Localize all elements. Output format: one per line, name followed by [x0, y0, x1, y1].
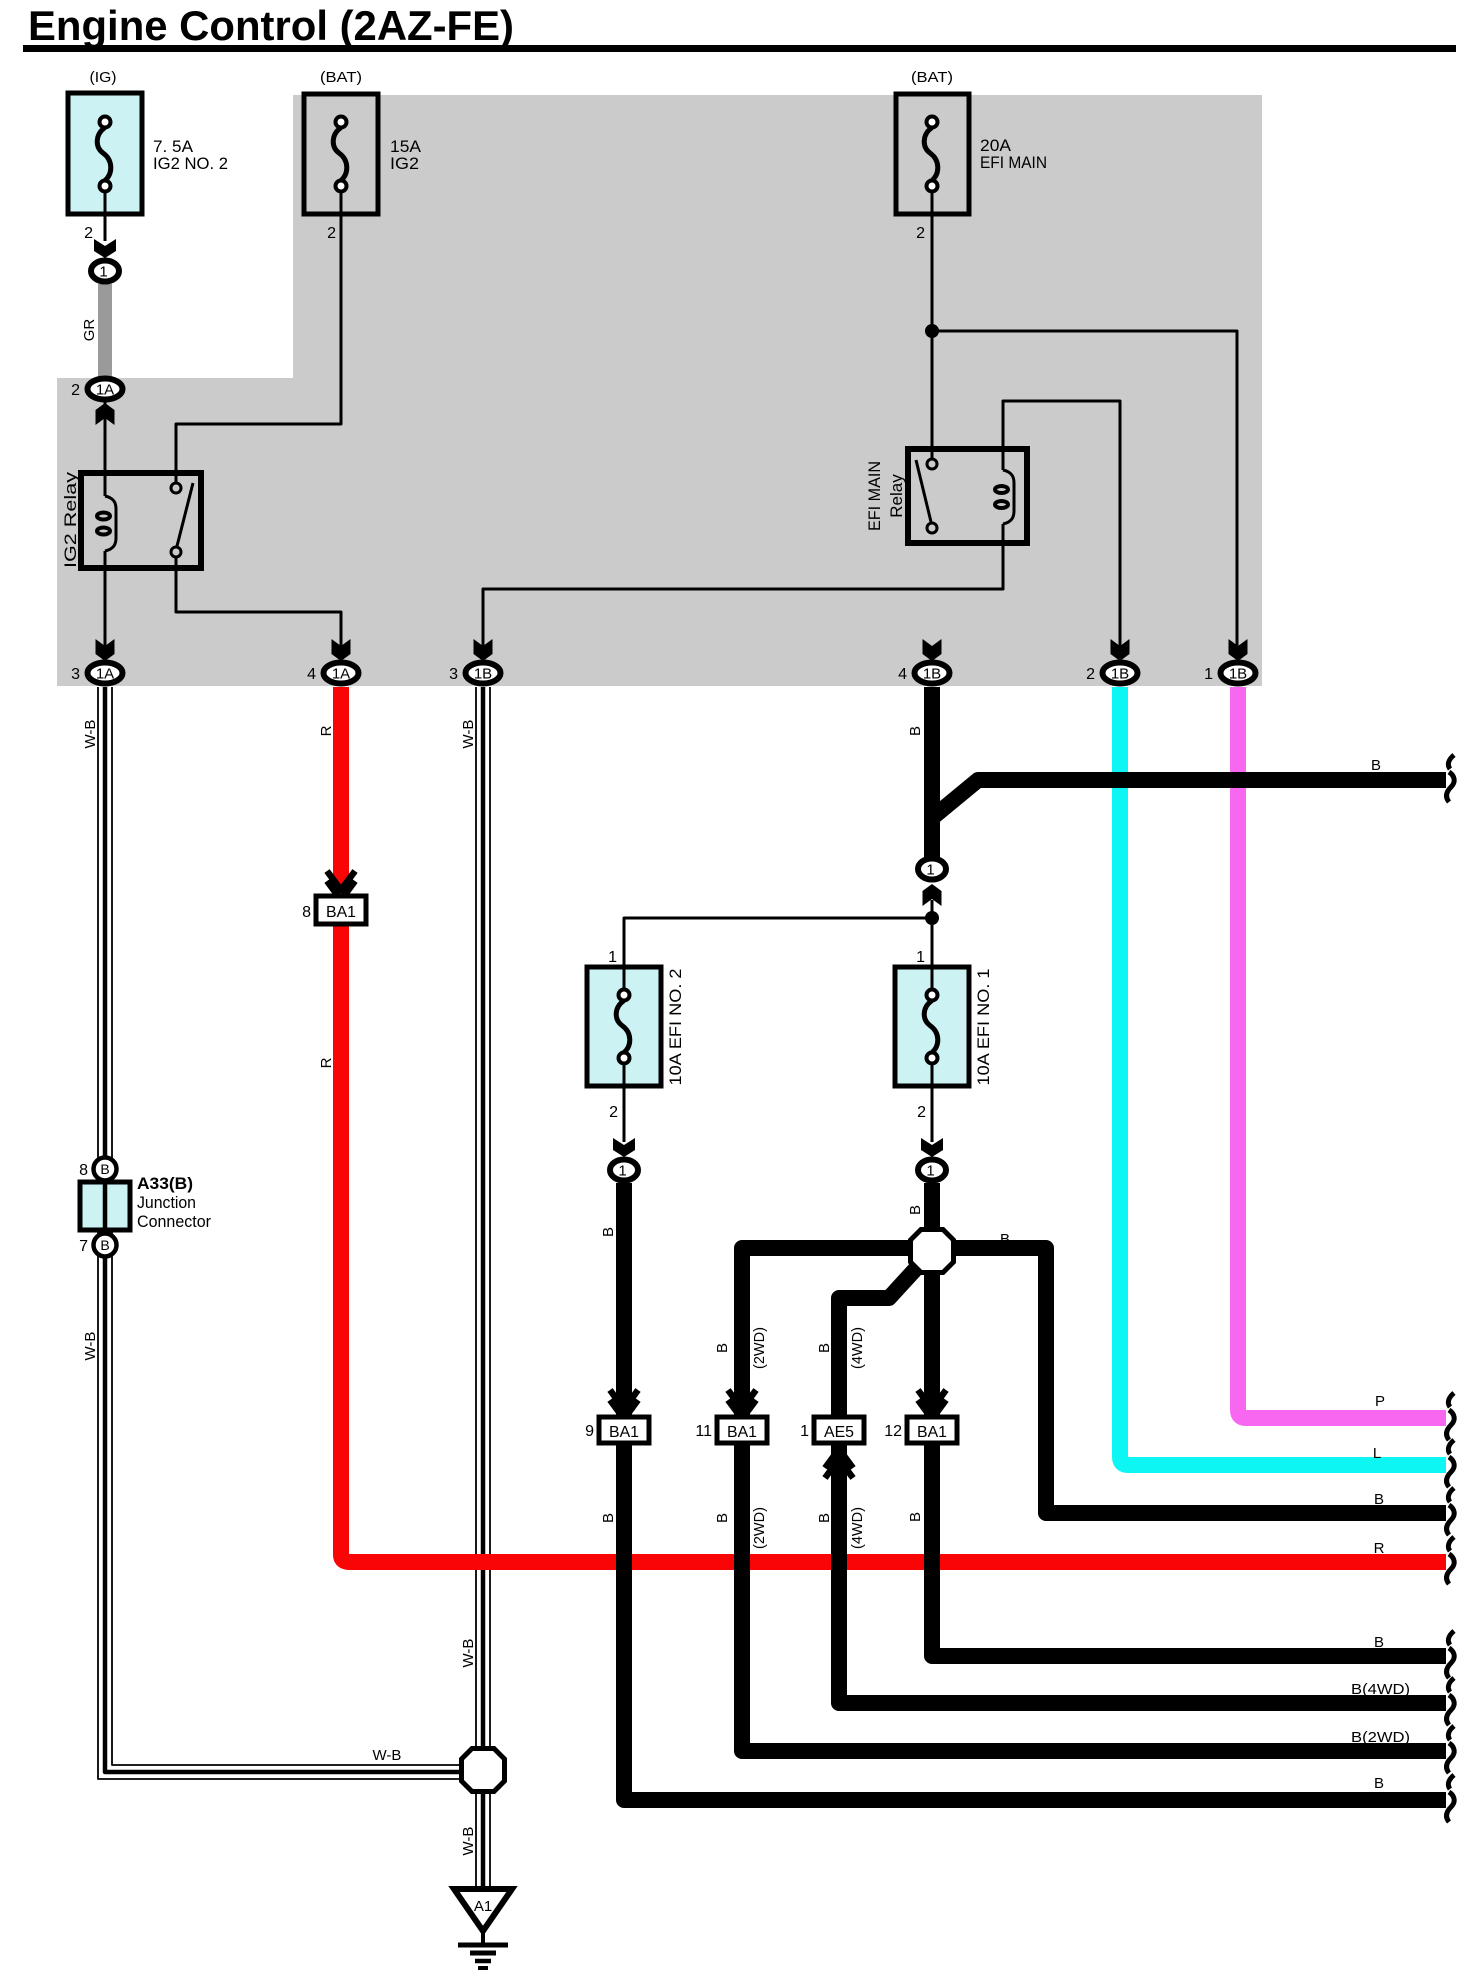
connector 11 BA1 — [695, 1417, 767, 1443]
svg-text:B: B — [1000, 1231, 1010, 1248]
label GR — [81, 319, 98, 342]
label B wire9 above — [600, 1227, 617, 1237]
wire B wire9 from oval to bottom right — [624, 1183, 1446, 1800]
svg-text:(2WD): (2WD) — [751, 1327, 768, 1369]
wire below EFI NO.1 fuse — [931, 1062, 934, 1142]
label B(2WD) right — [1351, 1729, 1410, 1746]
svg-text:L: L — [1373, 1445, 1381, 1462]
arrow into connector 2 1B — [1111, 639, 1130, 661]
connector oval 1 below EFI NO.1 — [918, 1160, 946, 1181]
fuse 20A labels — [911, 69, 1047, 242]
relay EFI MAIN box — [908, 449, 1027, 543]
arrow up into connector 1A — [96, 403, 115, 425]
label B wire12 above — [907, 1205, 924, 1215]
ground A1 — [454, 1889, 512, 1968]
wire B octagon left to wire11 — [742, 1248, 932, 1417]
svg-text:10A EFI NO. 1: 10A EFI NO. 1 — [974, 969, 993, 1086]
svg-text:P: P — [1375, 1393, 1385, 1410]
fuse 10A EFI NO.1 — [895, 965, 969, 1088]
wire B from 4 1B down with branch to right edge — [932, 687, 1446, 858]
svg-text:B: B — [714, 1513, 731, 1523]
svg-text:BA1: BA1 — [727, 1424, 757, 1441]
label R upper — [318, 725, 335, 736]
svg-text:BA1: BA1 — [917, 1424, 947, 1441]
junction block shaded region — [57, 95, 1262, 686]
label W-B below octagon — [460, 1827, 477, 1856]
label B right3 — [1374, 1775, 1384, 1792]
svg-text:R: R — [318, 1057, 335, 1068]
label W-B left lower — [82, 1332, 99, 1361]
svg-text:1: 1 — [618, 1163, 626, 1180]
break symbol B top — [1447, 755, 1455, 802]
connector A33(B) pin 7 circle — [79, 1234, 116, 1257]
arrow into oval below EFI NO.1 — [921, 1138, 943, 1157]
fuse 20A EFI MAIN — [896, 94, 969, 216]
label W-B center top — [460, 720, 477, 749]
wire fuse 7.5A pin2 down — [104, 191, 107, 241]
title underline — [23, 45, 1456, 52]
svg-text:B(2WD): B(2WD) — [1351, 1729, 1410, 1746]
wire B AE5 lower — [839, 1443, 1446, 1703]
connector 1A oval — [71, 379, 122, 400]
svg-text:Engine Control (2AZ-FE): Engine Control (2AZ-FE) — [28, 2, 514, 49]
svg-text:1: 1 — [1204, 666, 1213, 683]
connector 4 1B — [898, 663, 949, 684]
svg-text:10A EFI NO. 2: 10A EFI NO. 2 — [666, 969, 685, 1086]
svg-text:B: B — [100, 1161, 109, 1177]
label W-B center lower — [460, 1639, 477, 1668]
title Engine Control (2AZ-FE) — [28, 2, 514, 49]
wire below EFI NO.2 fuse — [623, 1062, 626, 1142]
svg-text:(BAT): (BAT) — [320, 69, 362, 86]
svg-text:3: 3 — [449, 666, 458, 683]
label B right of octagon — [1000, 1231, 1010, 1248]
svg-text:(IG): (IG) — [90, 69, 117, 86]
svg-text:BA1: BA1 — [326, 904, 356, 921]
wire thin junction to EFI NO.2 fuse — [624, 918, 932, 990]
svg-text:1B: 1B — [923, 666, 941, 683]
arrow into oval below EFI NO.2 — [613, 1138, 635, 1157]
svg-text:B: B — [816, 1343, 833, 1353]
svg-text:IG2 Relay: IG2 Relay — [61, 471, 80, 568]
connector 1 1B — [1204, 663, 1255, 684]
svg-text:9: 9 — [585, 1423, 594, 1440]
connector 1 oval below 4 1B — [918, 859, 946, 880]
arrow into connector 3 1A — [96, 639, 115, 661]
fuse 10A EFI NO.2 — [587, 965, 661, 1088]
svg-text:4: 4 — [307, 666, 316, 683]
svg-text:(4WD): (4WD) — [849, 1327, 866, 1369]
svg-text:B: B — [816, 1513, 833, 1523]
connector 8 BA1 — [302, 896, 366, 924]
svg-text:W-B: W-B — [82, 720, 99, 749]
svg-text:B(4WD): B(4WD) — [1351, 1681, 1410, 1698]
relay IG2 coil — [97, 473, 116, 568]
svg-text:B: B — [1374, 1491, 1384, 1508]
label B(4WD) right — [1351, 1681, 1410, 1698]
connector 4 1A — [307, 663, 358, 684]
wire fuse 15A pin2 to IG2 relay switch — [176, 191, 341, 484]
svg-text:A1: A1 — [474, 1898, 492, 1915]
arrow into connector 1 — [94, 239, 116, 258]
connector 3 1B — [449, 663, 500, 684]
svg-text:BA1: BA1 — [609, 1424, 639, 1441]
svg-text:B: B — [600, 1227, 617, 1237]
arrow chevrons into 11 BA1 — [728, 1390, 756, 1419]
wire fuse 20A pin2 to EFI MAIN relay switch — [931, 191, 934, 460]
connector 12 BA1 — [884, 1417, 957, 1443]
svg-text:1: 1 — [99, 264, 107, 281]
relay EFI MAIN switch — [916, 459, 937, 533]
arrow into connector 3 1B — [474, 639, 493, 661]
svg-text:W-B: W-B — [373, 1747, 402, 1764]
wire R red from 4 1A to right edge — [341, 687, 1446, 1562]
label B wire11 below — [714, 1507, 768, 1549]
svg-text:1A: 1A — [332, 666, 350, 683]
label L right — [1373, 1445, 1381, 1462]
svg-text:B: B — [600, 1513, 617, 1523]
label A33(B) — [137, 1174, 211, 1231]
fuse 15A labels — [320, 69, 422, 242]
svg-text:8: 8 — [79, 1162, 88, 1179]
wire EFI MAIN relay coil top to connector 2 1B — [1003, 401, 1120, 651]
arrow chevrons up below AE5 — [825, 1449, 853, 1478]
svg-text:1B: 1B — [474, 666, 492, 683]
wire B wire12 lower — [932, 1443, 1446, 1656]
svg-text:W-B: W-B — [460, 1827, 477, 1856]
svg-text:AE5: AE5 — [824, 1424, 854, 1441]
relay EFI MAIN label — [865, 461, 906, 531]
svg-text:3: 3 — [71, 666, 80, 683]
svg-text:11: 11 — [695, 1423, 712, 1440]
wire IG2 relay coil bottom to connector 3 1A — [104, 568, 107, 651]
svg-text:1B: 1B — [1111, 666, 1129, 683]
wire W-B octagon to ground — [476, 1794, 490, 1890]
arrow chevrons into 12 BA1 — [918, 1390, 946, 1419]
label B right1 — [1374, 1491, 1384, 1508]
break symbol B1 — [1447, 1488, 1455, 1535]
wire B wire12 from octagon down — [924, 1275, 940, 1417]
fuse 7.5A labels — [84, 69, 228, 242]
svg-text:12: 12 — [884, 1423, 902, 1440]
svg-text:B: B — [100, 1237, 109, 1253]
connector A33(B) pin 8 circle — [79, 1158, 116, 1181]
relay IG2 switch — [171, 483, 193, 557]
label W-B horizontal — [373, 1747, 402, 1764]
label B right2 — [1374, 1634, 1384, 1651]
wire P magenta from connector 1 1B to right edge — [1238, 687, 1446, 1418]
svg-text:W-B: W-B — [460, 720, 477, 749]
wire B octagon right to right edge — [932, 1248, 1446, 1513]
label W-B left top — [82, 720, 99, 749]
break symbol B2 — [1447, 1631, 1455, 1678]
break symbol R — [1447, 1537, 1455, 1584]
connector 1 AE5 — [800, 1417, 864, 1443]
svg-text:GR: GR — [81, 319, 98, 342]
svg-text:EFI MAIN: EFI MAIN — [865, 461, 884, 531]
fuse 15A IG2 — [304, 94, 378, 216]
svg-text:(2WD): (2WD) — [751, 1507, 768, 1549]
wire IG2 relay switch bottom to connector 4 1A — [176, 557, 341, 651]
wire L cyan from connector 2 1B to right edge — [1120, 687, 1446, 1465]
break symbol P — [1447, 1393, 1455, 1440]
wire B from oval into octagon — [924, 1183, 940, 1251]
arrow into connector 1 1B — [1229, 639, 1248, 661]
break symbol B3 — [1447, 1775, 1455, 1822]
connector 1 oval — [91, 261, 119, 282]
node junction dot at EFI MAIN feed — [925, 324, 939, 338]
arrow chevrons into 9 BA1 — [610, 1390, 638, 1419]
label B wire11 above — [714, 1327, 768, 1369]
node octagon junction — [911, 1230, 954, 1273]
fuse 10A EFI NO.1 labels — [916, 949, 993, 1121]
svg-text:1: 1 — [926, 862, 934, 879]
connector 9 BA1 — [585, 1417, 649, 1443]
svg-text:IG2 NO. 2: IG2 NO. 2 — [153, 154, 228, 173]
svg-text:R: R — [318, 725, 335, 736]
connector oval 1 below EFI NO.2 — [610, 1160, 638, 1181]
svg-text:8: 8 — [302, 904, 311, 921]
svg-text:B: B — [907, 1512, 924, 1522]
svg-text:IG2: IG2 — [390, 154, 419, 173]
connector 2 1B — [1086, 663, 1137, 684]
wire junction to connector 1 1B — [932, 331, 1237, 651]
svg-text:B: B — [1374, 1634, 1384, 1651]
svg-text:B: B — [907, 1205, 924, 1215]
wire W-B from 3 1A to bottom octagon — [98, 687, 459, 1779]
connector 3 1A — [71, 663, 122, 684]
svg-text:1B: 1B — [1229, 666, 1247, 683]
svg-text:B: B — [1371, 757, 1381, 774]
wire EFI MAIN relay coil bottom to connector 3 1B — [483, 524, 1003, 651]
svg-text:1: 1 — [608, 949, 617, 966]
svg-text:Relay: Relay — [887, 474, 906, 518]
svg-text:Junction: Junction — [137, 1193, 196, 1212]
svg-text:R: R — [1374, 1540, 1385, 1557]
arrow up into oval 1 — [923, 884, 942, 906]
svg-text:2: 2 — [916, 225, 925, 242]
fuse 10A EFI NO.2 labels — [608, 949, 685, 1121]
svg-text:2: 2 — [327, 225, 336, 242]
svg-text:EFI MAIN: EFI MAIN — [980, 153, 1047, 172]
break symbol B4WD — [1447, 1678, 1455, 1725]
arrow into connector 4 1B — [923, 639, 942, 661]
node bottom octagon junction — [462, 1749, 505, 1792]
fuse 7.5A IG2 NO.2 — [68, 93, 142, 216]
svg-text:2: 2 — [71, 382, 80, 399]
svg-text:2: 2 — [917, 1104, 926, 1121]
svg-text:7: 7 — [79, 1238, 88, 1255]
label B wire9 below — [600, 1513, 617, 1523]
svg-text:1: 1 — [800, 1423, 809, 1440]
svg-text:B: B — [714, 1343, 731, 1353]
svg-text:(BAT): (BAT) — [911, 69, 953, 86]
svg-text:B: B — [907, 726, 924, 736]
label R right — [1374, 1540, 1385, 1557]
wire thin from oval to EFI NO.1 fuse — [931, 900, 934, 990]
label B AE5 below — [816, 1507, 866, 1549]
svg-text:1A: 1A — [96, 382, 114, 399]
wire GR from connector 1 to connector 1A — [98, 284, 112, 377]
svg-text:W-B: W-B — [82, 1332, 99, 1361]
break symbol B2WD — [1447, 1726, 1455, 1773]
svg-text:1: 1 — [916, 949, 925, 966]
svg-text:W-B: W-B — [460, 1639, 477, 1668]
arrow into connector 4 1A — [332, 639, 351, 661]
relay IG2 box — [81, 473, 201, 568]
label B at 4 1B — [907, 726, 924, 736]
wire B wire11 lower — [742, 1443, 1446, 1751]
relay IG2 label — [61, 471, 80, 568]
node junction dot below oval — [925, 911, 939, 925]
connector A33(B) body — [80, 1182, 130, 1230]
svg-text:B: B — [1374, 1775, 1384, 1792]
wire W-B from 3 1B to bottom octagon — [476, 687, 490, 1747]
svg-text:2: 2 — [1086, 666, 1095, 683]
label R lower — [318, 1057, 335, 1068]
svg-text:1: 1 — [926, 1163, 934, 1180]
svg-text:(4WD): (4WD) — [849, 1507, 866, 1549]
label B AE5 above — [816, 1327, 866, 1369]
label P right — [1375, 1393, 1385, 1410]
break symbol L — [1447, 1440, 1455, 1487]
arrow chevrons into 8 BA1 — [327, 871, 355, 900]
svg-text:4: 4 — [898, 666, 907, 683]
wire connector 1A to IG2 relay coil — [104, 401, 107, 474]
svg-text:2: 2 — [609, 1104, 618, 1121]
label B top right — [1371, 757, 1381, 774]
wire B octagon diagonal to AE5 wire — [839, 1262, 922, 1417]
svg-text:A33(B): A33(B) — [137, 1174, 193, 1193]
svg-text:2: 2 — [84, 225, 93, 242]
svg-text:1A: 1A — [96, 666, 114, 683]
relay EFI MAIN coil — [995, 470, 1014, 524]
svg-text:Connector: Connector — [137, 1212, 211, 1231]
label B wire12 below — [907, 1512, 924, 1522]
